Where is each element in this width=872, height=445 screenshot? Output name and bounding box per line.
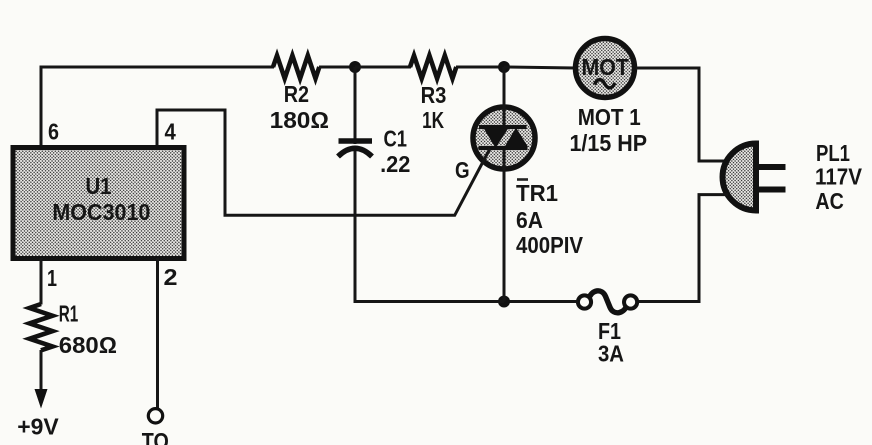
svg-text:1/15 HP: 1/15 HP — [570, 130, 648, 156]
svg-text:TR1: TR1 — [516, 180, 558, 206]
+9V arrowhead — [35, 389, 48, 409]
svg-text:G: G — [455, 157, 470, 183]
wire node A to R3 — [355, 66, 411, 69]
svg-text:PL1: PL1 — [816, 140, 850, 166]
svg-text:4: 4 — [165, 119, 176, 145]
svg-text:R1: R1 — [59, 301, 79, 327]
svg-text:TO: TO — [142, 428, 169, 445]
svg-text:.22: .22 — [380, 151, 410, 177]
svg-text:2: 2 — [164, 264, 178, 290]
wire pin6 lead and top rail to R2 — [41, 67, 274, 149]
svg-text:+9V: +9V — [17, 414, 59, 440]
wire R3 to node B — [456, 66, 504, 69]
resistor R2 — [270, 56, 330, 134]
plug PL1 — [723, 140, 863, 214]
svg-text:117V: 117V — [815, 164, 863, 190]
wire pin2 lead to terminal — [156, 258, 159, 409]
fuse F1 — [578, 291, 637, 367]
node A junction dot — [349, 61, 361, 73]
svg-text:R2: R2 — [284, 81, 309, 107]
node B junction dot — [498, 61, 510, 73]
triac TR1 — [473, 67, 584, 302]
capacitor C1 — [338, 125, 410, 177]
op-amp U1 box MOC3010 — [13, 148, 184, 259]
wire node A down to C1 — [354, 67, 357, 144]
svg-text:AC: AC — [815, 188, 843, 214]
svg-text:180Ω: 180Ω — [270, 107, 330, 133]
svg-text:1K: 1K — [422, 107, 444, 133]
svg-text:3A: 3A — [598, 341, 624, 367]
motor MOT1 — [570, 39, 648, 157]
svg-text:6A: 6A — [516, 207, 543, 233]
svg-text:MOC3010: MOC3010 — [52, 199, 150, 225]
svg-text:680Ω: 680Ω — [59, 332, 117, 358]
resistor R3 — [410, 56, 456, 134]
svg-text:400PIV: 400PIV — [516, 232, 584, 258]
svg-text:R3: R3 — [421, 82, 447, 108]
svg-text:MOT: MOT — [582, 54, 630, 80]
wire motor to plug top — [636, 68, 728, 161]
resistor R1 — [30, 301, 118, 358]
wire gate of TR1 back to pin 4 of U1 — [157, 110, 490, 215]
wire node C along bottom rail and up to C1 — [355, 146, 504, 302]
node C junction dot — [498, 296, 510, 308]
wire pin1 lead to R1 — [40, 258, 43, 305]
svg-text:C1: C1 — [384, 125, 408, 151]
wire R1 to +9V arrow — [40, 350, 43, 391]
wire R2 to node A — [319, 66, 355, 69]
wire fuse to node C — [504, 300, 578, 303]
terminal circle TO — [148, 409, 162, 423]
wire plug bottom to right rail down to fuse — [639, 195, 728, 302]
wire node B to motor — [504, 67, 575, 68]
svg-text:1: 1 — [47, 265, 57, 291]
svg-text:6: 6 — [48, 119, 59, 145]
svg-text:U1: U1 — [86, 173, 112, 199]
svg-text:MOT 1: MOT 1 — [578, 104, 641, 130]
